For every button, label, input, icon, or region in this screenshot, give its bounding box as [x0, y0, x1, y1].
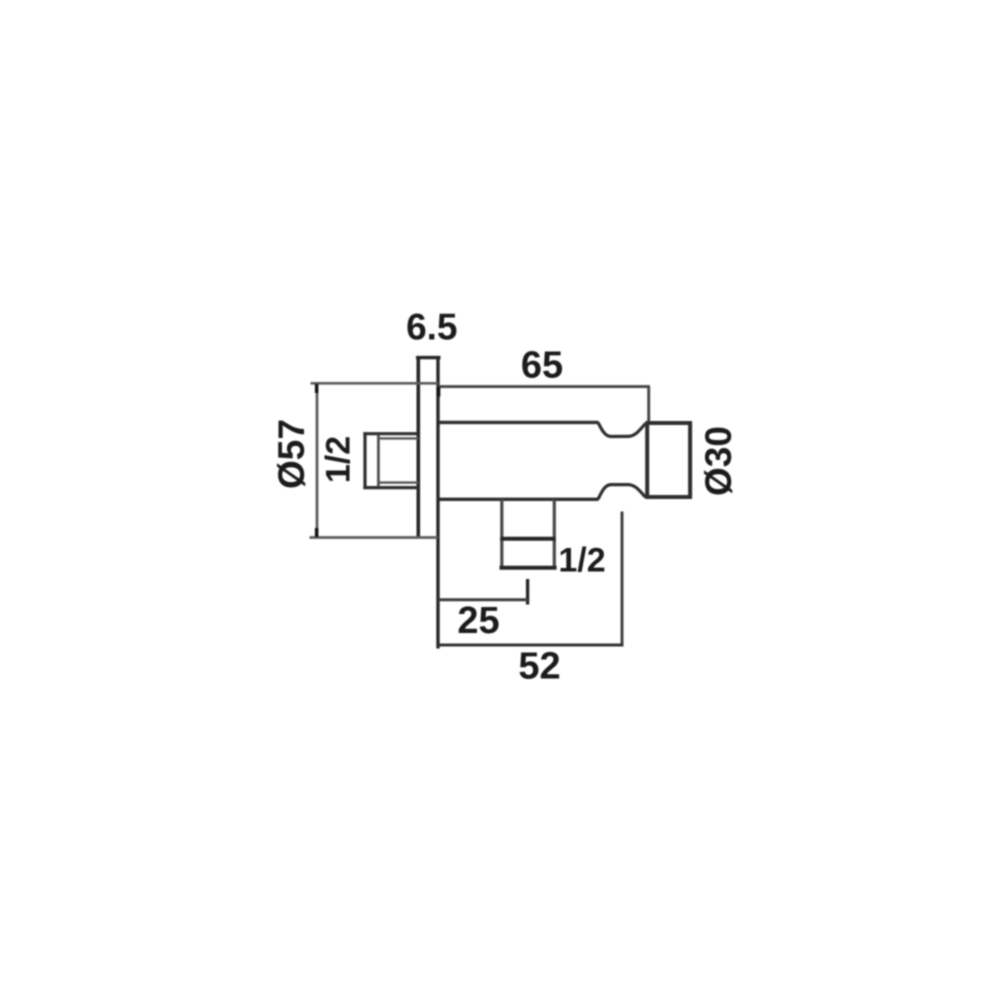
svg-text:1/2: 1/2 [558, 542, 605, 580]
bottom cove arc [598, 485, 646, 500]
65 tick left [437, 387, 440, 396]
25 dimension line [438, 598, 528, 601]
wall plate back face [416, 356, 420, 537]
svg-text:65: 65 [521, 345, 563, 387]
52 dimension line [438, 644, 623, 647]
25 dim riser [526, 579, 529, 605]
svg-text:Ø30: Ø30 [698, 426, 739, 496]
inlet port chamfer vertical [377, 435, 380, 487]
inlet port inner top [378, 437, 419, 439]
dia57 tick top [315, 384, 318, 393]
52 right extension line [621, 512, 624, 647]
svg-text:52: 52 [518, 646, 560, 688]
dia57 dimension line [316, 383, 319, 537]
body top line [438, 421, 599, 424]
holder cap dia30 [647, 423, 690, 497]
dia57 top extension line [311, 382, 439, 385]
bottom port bottom edge [500, 566, 557, 570]
top cove arc [598, 422, 646, 436]
svg-text:6.5: 6.5 [406, 307, 457, 348]
inlet port outer top [363, 432, 418, 435]
65 dim right vertical to cap [647, 387, 650, 422]
bottom port mid line [500, 537, 555, 541]
65 dimension line [438, 385, 650, 388]
dia57 tick bottom [315, 528, 318, 537]
inlet port outer left [363, 432, 366, 489]
bottom port left edge [500, 499, 503, 569]
wall plate front face + lower extension line to 52 dim [436, 356, 439, 649]
svg-text:Ø57: Ø57 [271, 419, 312, 489]
svg-text:1/2: 1/2 [319, 436, 357, 483]
dia57 bottom extension line [310, 536, 439, 539]
inlet port inner bottom [378, 481, 419, 483]
body bottom line [438, 498, 599, 501]
inlet port outer bottom [363, 486, 418, 489]
6.5 thickness box top edge [416, 356, 441, 359]
bottom port right edge [553, 499, 556, 569]
svg-text:25: 25 [457, 600, 499, 642]
